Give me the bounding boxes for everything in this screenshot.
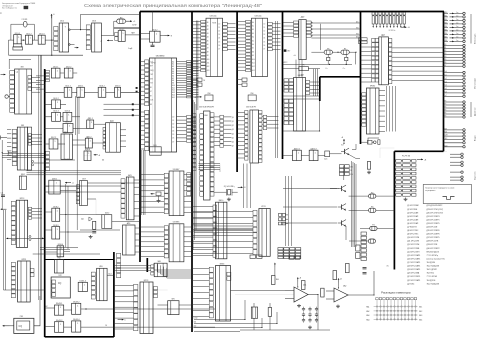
svg-text:Д22 4РС22АП1: Д22 4РС22АП1 — [407, 279, 420, 282]
svg-text:Д13 4РС22ИВ: Д13 4РС22ИВ — [407, 248, 420, 250]
svg-text:СБР: СБР — [150, 74, 153, 76]
transistor VT4 — [341, 220, 343, 225]
RAM DD29 right pin boxes — [210, 113, 214, 117]
ROM DD9 left stubs — [237, 21, 246, 23]
svg-text:Д14 4РС22ИП: Д14 4РС22ИП — [407, 251, 420, 253]
IC DD42 — [91, 272, 95, 276]
wires bottom center — [153, 289, 168, 291]
wires border to DD44 — [114, 264, 151, 266]
svg-text:Клавиатура: Клавиатура — [475, 33, 477, 44]
vertical resistor pair bottom — [268, 308, 271, 317]
svg-text:D3: D3 — [263, 34, 265, 36]
keyboard matrix vertical lines — [376, 300, 378, 321]
svg-text:Д3 4РС22АП: Д3 4РС22АП — [407, 211, 419, 214]
svg-text:ДД9: ДД9 — [301, 17, 304, 19]
svg-text:КБ0: КБ0 — [445, 12, 448, 14]
svg-text:Д1 4РС22ВМ: Д1 4РС22ВМ — [407, 205, 419, 207]
ROM DD8 main rectangle — [206, 18, 223, 76]
IC DD11 mid — [103, 127, 106, 130]
svg-text:DD2: DD2 — [60, 21, 64, 23]
wire bundle to DD13 — [191, 206, 213, 208]
svg-text:7Т 12-К2 МГц: 7Т 12-К2 МГц — [427, 255, 439, 257]
DD4.1 output wire — [125, 34, 139, 36]
svg-text:Сек: Сек — [456, 26, 459, 28]
svg-text:DD5.3: DD5.3 — [53, 111, 58, 113]
counter DD3 — [86, 25, 90, 29]
svg-text:ИЕ10: ИЕ10 — [219, 200, 224, 202]
svg-text:Д32 4РС22ИР1: Д32 4РС22ИР1 — [427, 219, 440, 221]
pin box ladder on bus x45 upper — [46, 70, 50, 72]
resistor R10 oval — [324, 50, 332, 54]
cap array ground — [309, 326, 311, 328]
gate DD4.2 clock shaper — [152, 12, 154, 32]
CPU data pin rows right — [177, 116, 187, 118]
svg-text:Га3: Га3 — [445, 81, 447, 83]
wires mid cluster — [73, 139, 86, 141]
svg-text:2 R R1: 2 R R1 — [22, 19, 28, 21]
svg-text:Генератор частот порождается н: Генератор частот порождается на схеме — [425, 187, 454, 189]
DD20 left stubs — [283, 22, 294, 24]
panel border vertical x237 — [236, 12, 238, 173]
RAM DD29 main rect — [204, 111, 211, 200]
svg-text:КБ4: КБ4 — [445, 26, 448, 28]
IC DD44 top notch — [151, 265, 154, 268]
resistor pair R43 R44 — [333, 271, 337, 280]
vertical wires right panel x313-318 — [313, 69, 315, 96]
ROM DD8 left stubs — [192, 21, 201, 23]
gate DD8.3 — [52, 227, 60, 239]
gate DD8.1 left cluster — [49, 180, 60, 194]
svg-text:Д0: Д0 — [445, 44, 447, 46]
RAM DD29 right outer boxes — [220, 115, 224, 118]
svg-text:Д1: Д1 — [232, 121, 234, 123]
ROM DD9 right stubs — [272, 23, 280, 25]
vertical wire x320 — [320, 24, 322, 50]
transistor VT3 — [341, 204, 343, 209]
svg-text:533 2Чх: 533 2Чх — [210, 16, 217, 18]
svg-text:ВИ53: ВИ53 — [220, 263, 225, 265]
svg-text:ЛА3: ЛА3 — [157, 260, 160, 263]
left-mid connecting wires — [44, 159, 75, 161]
left edge arrow y209 — [1, 208, 7, 210]
svg-text:DD6.1: DD6.1 — [78, 86, 83, 88]
svg-text:ВП-В20 КД523: ВП-В20 КД523 — [427, 251, 439, 253]
DD46 right small boxes — [227, 272, 231, 276]
CQ left arrow — [3, 325, 10, 327]
DD11 right stubs — [120, 129, 126, 131]
ROM DD9 right pin boxes — [268, 22, 273, 25]
svg-text:DD8.2: DD8.2 — [53, 206, 58, 208]
wires transistor cluster — [283, 188, 337, 190]
svg-text:533 2Чх: 533 2Чх — [255, 16, 262, 18]
svg-text:DA2: DA2 — [343, 285, 346, 288]
svg-text:Джойстик: Джойстик — [474, 107, 477, 116]
gate DD5.3 — [52, 112, 61, 121]
svg-text:Д21 4РС22ИЛ1: Д21 4РС22ИЛ1 — [407, 276, 420, 278]
svg-text:ДД4.2: ДД4.2 — [21, 174, 25, 176]
+V arrow op-amp A — [297, 278, 299, 282]
ROM DD8 right stubs — [227, 23, 235, 25]
svg-text:С21: С21 — [1, 193, 4, 195]
wire module feed — [380, 148, 394, 158]
panel notch vertical x319.8 — [319, 77, 321, 101]
svg-text:ОСТ: ОСТ — [150, 61, 153, 63]
mux DD14 middle — [253, 210, 257, 215]
wire bundle to RAM29 — [191, 114, 193, 116]
svg-text:ЗЧС КЧ4Щ22В: ЗЧС КЧ4Щ22В — [427, 283, 440, 285]
svg-text:Д35 4РС22ИР6: Д35 4РС22ИР6 — [427, 230, 440, 232]
svg-text:Га6: Га6 — [445, 92, 447, 94]
svg-text:Д0: Д0 — [232, 117, 234, 119]
op-amp A wires — [285, 290, 294, 292]
IC DD40 in box top — [55, 260, 64, 274]
svg-text:РЗ: РЗ — [445, 101, 447, 103]
gate DD5.2 — [52, 100, 61, 109]
svg-text:ГИ2: ГИ2 — [58, 275, 61, 277]
address bus wires into ROM channel — [191, 61, 198, 63]
svg-text:DD8.3: DD8.3 — [53, 225, 58, 227]
op-amp B wires — [326, 290, 334, 292]
svg-text:580 ВМ80: 580 ВМ80 — [156, 56, 165, 58]
wires DD37 DD38 — [134, 179, 140, 181]
DD3 output wire — [101, 35, 113, 37]
svg-text:Р5: Р5 — [327, 48, 329, 50]
bottom-left module box top border — [45, 259, 114, 261]
+V arrow at VT1 — [343, 139, 345, 144]
svg-text:Д39 4РС22И: Д39 4РС22И — [427, 244, 438, 246]
wires gate cluster — [44, 103, 52, 105]
svg-text:ЗХВ: ЗХВ — [150, 78, 153, 80]
svg-text:Д4: Д4 — [232, 133, 234, 135]
svg-text:ЗЧ2: ЗЧ2 — [194, 326, 197, 328]
svg-text:Р7: Р7 — [344, 48, 346, 50]
svg-text:Д22-Д28 4РБ2ИР2: Д22-Д28 4РБ2ИР2 — [427, 205, 443, 207]
svg-text:D2: D2 — [263, 31, 265, 33]
svg-text:DD41.4: DD41.4 — [80, 281, 86, 283]
svg-text:Сек: Сек — [456, 12, 459, 14]
data bus wires channel — [191, 116, 196, 118]
counter IC DD6 (533 ИЕ7) — [164, 173, 168, 177]
svg-text:D4: D4 — [218, 38, 220, 40]
wires left cluster — [60, 185, 79, 187]
svg-text:Схема электрическая принципиал: Схема электрическая принципиальная компь… — [84, 3, 262, 9]
svg-text:Д3: Д3 — [232, 129, 234, 131]
ladder ground — [405, 198, 407, 200]
IC DD45 small bottom center — [168, 301, 179, 315]
vertical bundle x285-299 middle — [285, 176, 287, 246]
junction dots — [44, 92, 45, 93]
bottom-left module box right border — [113, 252, 115, 337]
gate DD5.2 mid — [85, 138, 92, 148]
svg-text:Р4: Р4 — [372, 225, 374, 227]
svg-text:ЛИ1: ЛИ1 — [171, 299, 174, 301]
vertical resistor R41 — [301, 281, 305, 290]
svg-text:D6: D6 — [263, 45, 265, 47]
svg-text:D2: D2 — [218, 31, 220, 33]
IC DD38 — [123, 225, 136, 255]
panel border vertical x140 — [139, 12, 141, 263]
svg-text:R40: R40 — [276, 279, 279, 281]
svg-text:533 ЛС38 РУ: 533 ЛС38 РУ — [246, 107, 257, 109]
svg-text:М1: М1 — [150, 87, 152, 89]
svg-text:Га0: Га0 — [445, 71, 447, 73]
transistor VT1 — [344, 149, 346, 154]
svg-text:КБ7: КБ7 — [445, 36, 448, 38]
cap array 2x3 — [302, 308, 305, 310]
arrow right of box — [118, 319, 124, 321]
svg-text:ЗЕЛ: ЗЕЛ — [445, 138, 448, 140]
svg-text:ИР23: ИР23 — [22, 259, 27, 261]
horizontal wire y64.4 — [283, 63, 352, 65]
svg-text:Д2: Д2 — [445, 50, 447, 52]
vertical resistor R42 — [321, 288, 324, 297]
DD20 fan-out wires — [311, 22, 360, 24]
svg-text:Сек: Сек — [456, 33, 459, 35]
svg-text:383: 383 — [21, 125, 24, 127]
gate chain wires — [283, 154, 293, 156]
panel border vertical x147 lower bar — [146, 258, 148, 272]
svg-text:DA1: DA1 — [303, 284, 306, 287]
svg-text:Д1: Д1 — [445, 47, 447, 49]
svg-text:Д30 4РС2ТМ (ОЗУ): Д30 4РС2ТМ (ОЗУ) — [427, 212, 444, 214]
+V arrow mid resistor — [274, 263, 276, 267]
svg-text:КА4: КА4 — [366, 318, 369, 321]
gate DD5.1 mid — [87, 120, 94, 128]
panel notch horizontal y76.8 — [320, 76, 361, 78]
note waveform — [443, 197, 455, 200]
RAM DD30 right stubs — [262, 116, 263, 118]
keyboard column labels — [376, 298, 378, 300]
svg-text:Д2 4РС2ИЕ: Д2 4РС2ИЕ — [407, 209, 418, 211]
svg-text:D0: D0 — [218, 23, 220, 25]
bracket keyboard — [470, 14, 472, 44]
gate DD21.1 horizontal — [299, 67, 309, 71]
svg-text:Б: Б — [125, 320, 126, 322]
RAM DD30 left stubs — [237, 112, 245, 114]
svg-text:Д16 4РС22АП1: Д16 4РС22АП1 — [407, 257, 420, 260]
wire bundle y163-169 to DD12 — [199, 163, 221, 165]
vertical resistor R40 — [271, 276, 275, 285]
bus channel right of ROM9 — [275, 21, 277, 158]
panel border vertical x443.5 right — [443, 12, 445, 152]
boxed labels left of DD24 — [359, 38, 368, 41]
svg-text:DD4.2: DD4.2 — [152, 29, 157, 31]
svg-text:ТМ2: ТМ2 — [57, 258, 60, 260]
svg-text:Д29 4РС2ТМ (ОЗУ): Д29 4РС2ТМ (ОЗУ) — [427, 209, 444, 211]
small box pair near x356 — [356, 245, 360, 251]
svg-text:К2 К3 Св: К2 К3 Св — [389, 30, 396, 32]
VT1 wires — [349, 154, 361, 158]
pull-up resistor array — [372, 12, 374, 15]
address bus vertical channel ROM area — [195, 21, 197, 111]
+5V supply top — [51, 14, 53, 18]
ROM DD9 main rectangle — [252, 18, 268, 76]
svg-text:DD9: DD9 — [82, 178, 86, 180]
verticals DD20 to DD22 — [295, 60, 297, 78]
svg-text:Д8 4РС27ИС: Д8 4РС27ИС — [407, 230, 419, 232]
svg-text:Д2: Д2 — [232, 125, 234, 127]
IC DD34 bottom-left — [11, 262, 15, 266]
DD3 input wire — [81, 29, 87, 31]
+V arrow op-amp B — [338, 279, 340, 283]
svg-text:Га5: Га5 — [445, 88, 447, 90]
IC DD31 mid-left — [12, 129, 17, 133]
gate DD2.1 at top of bus — [51, 68, 60, 78]
svg-text:R3: R3 — [120, 17, 122, 19]
svg-text:ROM: ROM — [212, 23, 217, 25]
transistor VT2 — [341, 186, 343, 191]
wire R3 to DD4.1 — [114, 21, 117, 35]
panel border vertical x394.4 — [393, 151, 395, 269]
vertical wires RAM30 to DD14 — [243, 164, 245, 209]
DD30 side circle gate — [5, 95, 8, 98]
ROM DD8 left pin number boxes — [201, 20, 206, 23]
svg-text:КА3: КА3 — [366, 314, 369, 317]
connector pins video group — [444, 129, 453, 131]
wires DD31 — [7, 129, 11, 131]
wire CPU panel vertical feeds — [141, 150, 143, 215]
svg-text:КД2: КД2 — [81, 219, 84, 221]
svg-text:ДД10: ДД10 — [64, 132, 68, 134]
resistor R2 feedback box — [13, 44, 21, 47]
wires left bottom — [34, 296, 40, 326]
svg-text:Д4: Д4 — [445, 56, 447, 58]
wires gates row y87 — [44, 91, 64, 93]
svg-text:КБ1: КБ1 — [419, 307, 422, 309]
svg-text:КП11: КП11 — [261, 206, 265, 208]
IC DD6b below — [164, 226, 168, 230]
DD22 right wires to notch — [310, 81, 320, 83]
horizontal wires upper mid x283-360 — [283, 95, 320, 97]
svg-text:АП6: АП6 — [127, 222, 130, 225]
svg-text:Д23 2Вх: Д23 2Вх — [407, 283, 414, 285]
ROM DD8 select IC — [205, 95, 213, 101]
wires R ovals — [349, 195, 369, 197]
svg-text:Д12 4РС22ЛН: Д12 4РС22ЛН — [407, 244, 420, 246]
connector pin sync — [444, 146, 463, 148]
svg-text:Д7 8245ПЗ: Д7 8245ПЗ — [407, 227, 417, 229]
svg-text:(монтаж базовая ПЗ): (монтаж базовая ПЗ) — [427, 258, 445, 260]
IC DD25 right mid — [362, 93, 366, 96]
connector pin single — [444, 142, 463, 144]
svg-text:DD6.2: DD6.2 — [99, 86, 104, 88]
gate DD5.4 — [63, 112, 72, 121]
resistor R near gates — [325, 151, 330, 157]
svg-text:D0: D0 — [172, 116, 174, 118]
IVU black mark — [284, 49, 287, 51]
svg-text:ЗЧС КЧ4Щ22В: ЗЧС КЧ4Щ22В — [427, 266, 440, 268]
wire bundle middle y226-233 — [194, 225, 253, 227]
ROM DD8 right pin boxes — [223, 22, 228, 25]
svg-text:РЧ6: РЧ6 — [251, 93, 254, 95]
DD30 input arrow — [1, 74, 6, 76]
svg-text:D3: D3 — [218, 34, 220, 36]
bus pair wires to CPU panel — [114, 26, 139, 28]
component column x360-367 — [361, 232, 366, 235]
panel border vertical x282.5 — [282, 12, 284, 160]
oscillator signal wire chain — [9, 39, 14, 41]
svg-text:ЗЧ КД74Е: ЗЧ КД74Е — [427, 262, 436, 264]
svg-text:Д10 4РС22ЛЕ: Д10 4РС22ЛЕ — [407, 237, 420, 239]
svg-text:КБ6: КБ6 — [445, 33, 448, 35]
svg-text:Сек: Сек — [456, 15, 459, 17]
bottom bus wire y55 — [9, 54, 83, 56]
connector pins group2 — [444, 45, 451, 47]
svg-text:DD7.1: DD7.1 — [65, 122, 70, 124]
gate DD2.2 — [64, 68, 73, 78]
IC DD16 tall bottom centerleft — [134, 284, 138, 289]
svg-text:КБ2: КБ2 — [445, 19, 448, 21]
svg-text:С/ЗШ: С/ЗШ — [194, 318, 198, 320]
IC DD33 big left — [11, 201, 15, 205]
svg-text:Д7: Д7 — [445, 65, 447, 67]
CPU IC Z80 main rectangle — [150, 58, 177, 152]
gate DD4.1 — [115, 33, 118, 37]
svg-text:ЗЧ КД7ОЕ: ЗЧ КД7ОЕ — [427, 280, 437, 282]
svg-text:КБ2: КБ2 — [419, 311, 422, 313]
svg-text:DD1.2: DD1.2 — [26, 33, 31, 35]
panel border vertical x360.5 — [360, 12, 362, 145]
svg-text:Д38 4РС22ТВ: Д38 4РС22ТВ — [427, 241, 440, 243]
IC DD37 left of border — [121, 179, 125, 183]
tick glyph left — [7, 151, 9, 155]
svg-text:CQ: CQ — [19, 325, 23, 328]
svg-text:D4: D4 — [172, 131, 174, 133]
wires bottom of left cluster — [40, 246, 78, 248]
svg-text:Д3: Д3 — [445, 53, 447, 55]
svg-text:РЗ: РЗ — [445, 104, 447, 106]
svg-text:DD43.3: DD43.3 — [56, 320, 62, 322]
panel border top horizontal — [140, 11, 444, 13]
diode matrix 4x4 bottom — [278, 248, 283, 250]
vertical bus wires x75-80 — [76, 97, 78, 230]
svg-text:Д31 4РС22ИР3: Д31 4РС22ИР3 — [427, 216, 440, 218]
svg-text:КА2: КА2 — [366, 310, 369, 313]
CPU address pin rows right — [177, 61, 187, 63]
left vertical bus lines — [38, 55, 40, 300]
DD33 bottom circles and wire — [29, 236, 31, 238]
svg-text:D5: D5 — [263, 41, 265, 43]
svg-text:КБ8: КБ8 — [445, 40, 448, 42]
svg-text:ВК1: ВК1 — [356, 28, 359, 30]
staircase wires below DD6b — [154, 263, 191, 270]
IC DD20 port decoder — [294, 21, 299, 24]
svg-text:DD3: DD3 — [92, 21, 96, 23]
svg-text:СИН: СИН — [445, 135, 448, 137]
caps bottom left of list — [363, 267, 367, 269]
RAM DD29 left pin boxes at border — [193, 114, 196, 117]
svg-text:ЗЧ2 8Ом: ЗЧ2 8Ом — [427, 273, 435, 275]
svg-text:DD10: DD10 — [105, 213, 109, 215]
svg-text:DD2.2: DD2.2 — [66, 66, 71, 68]
DD2 output stubs — [69, 29, 71, 31]
VT2 wires — [330, 188, 339, 190]
svg-text:РЗ: РЗ — [445, 110, 447, 112]
CPU left pin boxes lower — [145, 110, 149, 114]
svg-text:D1: D1 — [218, 27, 220, 29]
DD4.2 output arrow — [160, 35, 164, 37]
svg-text:Сек: Сек — [456, 29, 459, 31]
panel border horizontal y151.3 — [394, 150, 443, 152]
svg-text:ОЕ: ОЕ — [203, 80, 205, 82]
svg-text:D7: D7 — [218, 49, 220, 51]
svg-text:DD43.1: DD43.1 — [56, 303, 62, 305]
svg-text:ДД11: ДД11 — [110, 120, 114, 122]
svg-text:РЗ: РЗ — [445, 113, 447, 115]
svg-text:Д20 4РС22ВА: Д20 4РС22ВА — [407, 272, 420, 275]
svg-text:СЕ: СЕ — [105, 325, 107, 327]
ROM DD9 select boxes below — [242, 78, 247, 81]
